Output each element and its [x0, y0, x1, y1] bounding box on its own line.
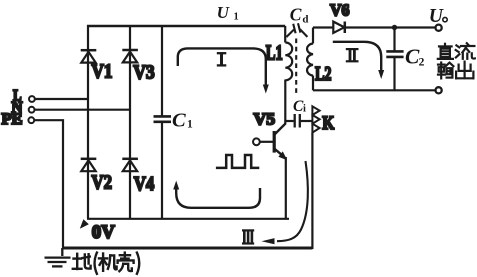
- transistor V5: [253, 123, 287, 160]
- collector stroke: [274, 123, 286, 135]
- svg-text:V1: V1: [92, 61, 113, 83]
- svg-text:d: d: [302, 13, 308, 25]
- diode V1: [81, 50, 97, 62]
- label Cd: [290, 4, 309, 25]
- svg-text:0V: 0V: [92, 222, 115, 243]
- label 地(机壳) hand-drawn glyphs: [73, 253, 139, 274]
- wire: secondary top bus to V6 anode: [313, 26, 334, 28]
- svg-text:1: 1: [234, 12, 239, 23]
- svg-text:2: 2: [419, 56, 425, 68]
- transformer winding L1: [285, 43, 292, 81]
- base drive square wave: [216, 155, 259, 168]
- label Ci: [293, 98, 306, 115]
- wire: bridge right branch (V3/V4 column): [129, 26, 131, 219]
- svg-text:U: U: [217, 3, 230, 22]
- label C1: [172, 109, 193, 131]
- element K (interference gap): [312, 106, 319, 132]
- svg-text:L2: L2: [315, 63, 332, 85]
- output terminal +: [436, 25, 442, 31]
- capacitor C1: [154, 116, 172, 121]
- svg-text:V4: V4: [134, 173, 155, 195]
- wire: L1 top lead from bus: [284, 26, 286, 43]
- glyph ): [137, 253, 139, 274]
- wire: PE input lead: [34, 120, 63, 247]
- glyph 地: [73, 254, 91, 269]
- svg-text:1: 1: [187, 119, 193, 131]
- wire: C1 branch lower: [161, 122, 163, 219]
- svg-text:V3: V3: [133, 62, 155, 84]
- wire: chassis right riser to K: [311, 133, 313, 249]
- glyph 出: [456, 62, 473, 79]
- loop III arrow: [262, 161, 308, 244]
- loop II arrow: [333, 42, 384, 79]
- capacitor C2: [386, 51, 403, 57]
- label III: [242, 230, 254, 243]
- svg-text:PE: PE: [2, 111, 23, 128]
- glyph (: [95, 253, 97, 274]
- junction dot at C2 top: [392, 25, 397, 30]
- wire: inner bottom return (0V rail): [87, 218, 289, 220]
- emitter stroke: [274, 149, 284, 158]
- wire: chassis bottom bus: [62, 247, 312, 250]
- ground (chassis) symbol: [45, 248, 71, 266]
- loop I upper arrow: [178, 48, 269, 93]
- wire: L input lead: [35, 98, 88, 100]
- base bar: [273, 131, 276, 153]
- svg-text:L1: L1: [266, 41, 283, 65]
- svg-text:V5: V5: [254, 109, 276, 128]
- label C2: [405, 45, 425, 69]
- transformer winding L2: [307, 44, 313, 76]
- wire: V5 emitter lead down: [285, 157, 287, 219]
- label Uo: [429, 6, 447, 27]
- wire: N input lead: [35, 109, 131, 111]
- capacitor Cd (parasitic, tilted): [286, 23, 307, 37]
- svg-text:C: C: [290, 4, 302, 24]
- wire: Ci right stub to K: [301, 120, 312, 122]
- node 0V arrow: [80, 219, 89, 229]
- wire: C2 branch lower: [393, 57, 395, 90]
- loop I lower arrow: [173, 181, 260, 208]
- wire: V5 collector / L1 bottom lead: [284, 80, 286, 124]
- svg-text:K: K: [322, 113, 334, 134]
- svg-text:C: C: [172, 109, 186, 131]
- base terminal circle: [253, 138, 260, 145]
- terminal L: [29, 96, 35, 102]
- glyph 直: [438, 44, 453, 59]
- wire: Ci left stub from collector: [285, 120, 293, 122]
- glyph 机: [99, 254, 117, 271]
- wire: bridge left branch (V1/V2 column): [87, 25, 89, 219]
- svg-text:V6: V6: [330, 0, 350, 19]
- svg-text:V2: V2: [92, 172, 113, 194]
- wire: L2 top lead: [312, 28, 314, 44]
- wire: C2 branch upper: [393, 28, 395, 52]
- label 直流输出 hand-drawn glyphs: [438, 43, 475, 78]
- base lead: [260, 141, 273, 143]
- label II: [346, 49, 359, 61]
- terminal N: [29, 107, 35, 113]
- wire: top primary bus U1: [87, 25, 285, 27]
- diode V4: [122, 159, 138, 171]
- capacitor Ci: [295, 114, 300, 128]
- diode V2: [81, 159, 97, 171]
- label U1 (node): [217, 3, 239, 23]
- glyph 壳: [118, 253, 134, 272]
- diode V3: [122, 50, 138, 62]
- wire: L2 bottom lead: [312, 76, 314, 91]
- label I: [217, 53, 227, 65]
- glyph 输: [438, 63, 453, 79]
- wire: C1 branch upper: [161, 26, 163, 116]
- wire: V6 cathode to output + terminal: [346, 26, 437, 28]
- svg-text:i: i: [303, 104, 306, 115]
- glyph 流: [456, 43, 475, 59]
- output terminal -: [436, 87, 442, 93]
- transformer core: [295, 39, 297, 96]
- wire: secondary bottom bus: [313, 89, 436, 91]
- emitter arrowhead: [278, 151, 287, 160]
- svg-text:U: U: [429, 6, 444, 27]
- terminal PE: [28, 117, 34, 123]
- diode V6: [333, 22, 345, 34]
